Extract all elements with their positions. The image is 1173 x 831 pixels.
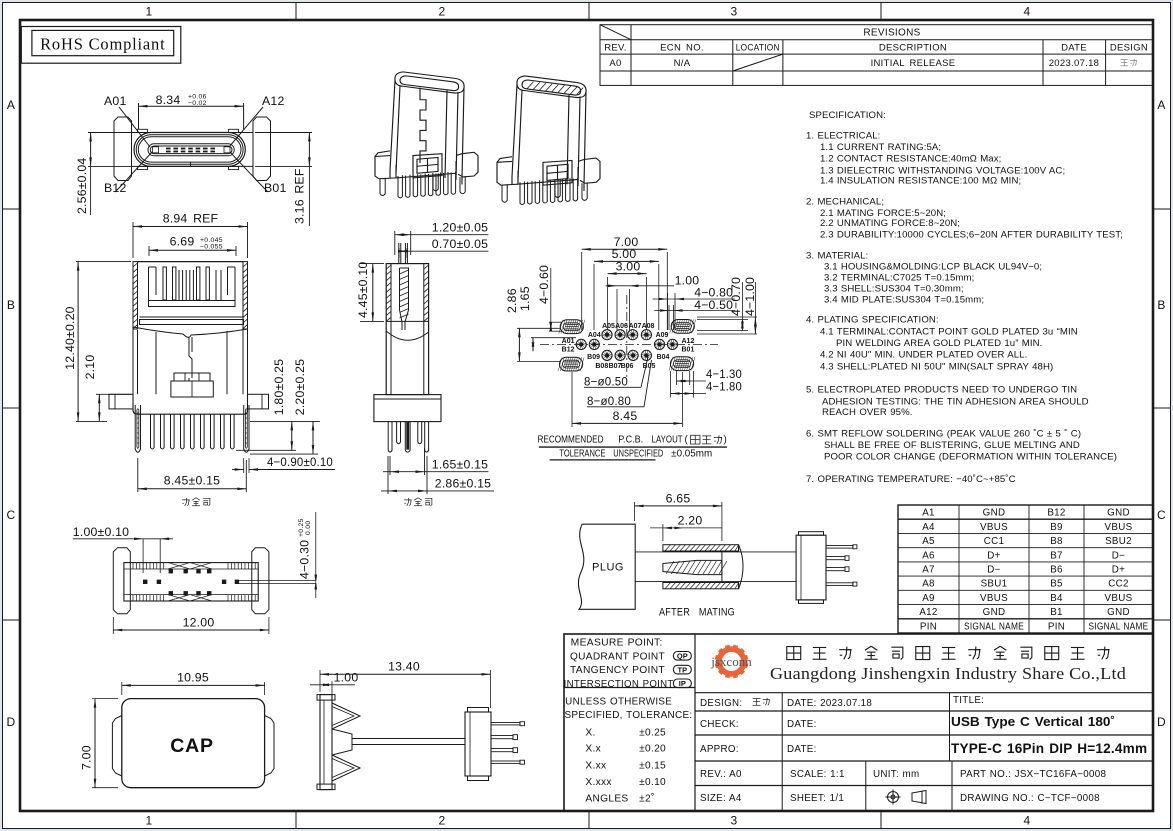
svg-text:−0.02: −0.02 [188, 100, 207, 107]
svg-text:4.45±0.10: 4.45±0.10 [356, 262, 370, 318]
svg-text:DESIGN: DESIGN [1110, 43, 1148, 54]
svg-text:ECN NO.: ECN NO. [660, 43, 704, 54]
recommended pcb layout view [505, 235, 757, 460]
top wing [332, 703, 360, 729]
svg-text:): ) [724, 435, 728, 446]
pins [388, 422, 392, 453]
dim 4-0.50 [668, 305, 670, 330]
svg-text:6. SMT REFLOW SOLDERING (PE: 6. SMT REFLOW SOLDERING (PEAK VALUE 260 … [806, 429, 1081, 440]
svg-text:B09: B09 [587, 354, 600, 361]
svg-text:SCALE: 1:1: SCALE: 1:1 [790, 769, 845, 780]
diagonal in rev corner cell [600, 25, 631, 40]
plug body [578, 524, 635, 609]
svg-text:PIN: PIN [920, 621, 937, 632]
after mating view [578, 492, 856, 619]
dim 4-1.80 [670, 371, 672, 398]
svg-text:7.00: 7.00 [80, 745, 94, 770]
ext lines 4-0.30 [239, 580, 316, 582]
svg-text:3: 3 [731, 5, 738, 19]
base body [133, 394, 248, 414]
svg-text:B06: B06 [621, 363, 634, 370]
svg-text:2.3 DURABILITY:10000 CYCLES;: 2.3 DURABILITY:10000 CYCLES;6~20N AFTER … [820, 229, 1123, 240]
svg-text:AFTER MATING: AFTER MATING [659, 607, 735, 619]
zone ticks right [1153, 208, 1171, 210]
svg-text:1.65±0.15: 1.65±0.15 [432, 458, 488, 472]
svg-text:DRAWING NO.: C−TCF−0008: DRAWING NO.: C−TCF−0008 [960, 793, 1100, 804]
svg-text:2: 2 [439, 814, 446, 828]
right flange [253, 117, 271, 181]
pegs [135, 405, 140, 452]
svg-text:SPECIFIED, TOLERANCE:: SPECIFIED, TOLERANCE: [565, 710, 693, 721]
svg-text:B6: B6 [1050, 565, 1063, 576]
zone ticks left [3, 208, 21, 210]
svg-text:SHALL BE FREE OF BLISTERIN: SHALL BE FREE OF BLISTERING, GLUE MELTIN… [824, 440, 1080, 451]
receptacle walls hatched [663, 545, 739, 551]
svg-text:GND: GND [983, 607, 1006, 618]
svg-text:1. ELECTRICAL:: 1. ELECTRICAL: [806, 131, 880, 142]
dim 4-0.60 left [549, 321, 562, 323]
x cross pattern [168, 563, 212, 569]
comb base bands [149, 301, 236, 307]
svg-text:2.20±0.25: 2.20±0.25 [293, 359, 307, 415]
svg-text:B: B [1157, 298, 1165, 312]
company CJK name [787, 647, 801, 660]
dim 4-1.00 right [697, 316, 757, 318]
svg-text:P.C.B.: P.C.B. [618, 435, 643, 446]
svg-text:DATE:: DATE: [787, 719, 817, 730]
svg-text:1.00±0.10: 1.00±0.10 [73, 525, 129, 539]
dim 3.00 [607, 277, 609, 330]
dim 7.00 [581, 252, 583, 330]
dim 2.86 [387, 456, 389, 494]
svg-text:REV.: REV. [604, 43, 627, 54]
dim 1.65 [389, 456, 391, 475]
dim 12.00 [112, 617, 114, 634]
solder pads [169, 569, 173, 573]
svg-text:8−ø0.80: 8−ø0.80 [587, 394, 631, 408]
svg-text:TANGENCY POINT: TANGENCY POINT [570, 665, 665, 676]
diagonal in location cell [733, 54, 783, 71]
dim 2.56 left [88, 132, 133, 134]
side assembly view [310, 660, 525, 790]
circular pads top row [602, 330, 612, 340]
svg-text:1.65: 1.65 [518, 286, 532, 311]
svg-text:8.45±0.15: 8.45±0.15 [164, 474, 220, 488]
svg-text:±0.10: ±0.10 [639, 777, 666, 788]
svg-text:SIGNAL NAME: SIGNAL NAME [1089, 621, 1149, 632]
svg-text:DATE: DATE [1061, 43, 1087, 54]
svg-text:3. MATERIAL:: 3. MATERIAL: [806, 251, 868, 262]
svg-text:X.xx: X.xx [585, 761, 606, 772]
svg-text:2.56±0.04: 2.56±0.04 [75, 158, 89, 214]
svg-text:A5: A5 [922, 536, 935, 547]
svg-text:DATE: 2023.07.18: DATE: 2023.07.18 [787, 698, 872, 709]
dim 8.34 [138, 103, 140, 129]
svg-text:A09: A09 [656, 332, 669, 339]
contact dashes [166, 148, 171, 150]
svg-text:±2˚: ±2˚ [639, 792, 655, 804]
svg-text:B07: B07 [609, 363, 622, 370]
svg-text:1.4 INSULATION RESISTANCE:10: 1.4 INSULATION RESISTANCE:100 MΩ MIN; [820, 175, 1021, 186]
center stem [189, 337, 192, 381]
dim 8.45 [137, 458, 139, 492]
svg-text:3.1 HOUSING&MOLDING:LCP BLAC: 3.1 HOUSING&MOLDING:LCP BLACK UL94V−0; [824, 262, 1042, 273]
connector pins [826, 546, 853, 549]
dim 4-0.70 right [697, 319, 748, 321]
svg-text:LOCATION: LOCATION [736, 43, 780, 54]
tube outer [386, 264, 428, 395]
cap view [80, 671, 275, 788]
svg-text:B01: B01 [264, 181, 286, 195]
svg-text:2.86: 2.86 [505, 288, 519, 313]
section label CJK [404, 498, 412, 506]
base flange wings [109, 394, 133, 409]
svg-text:SBU2: SBU2 [1105, 536, 1132, 547]
dim 0.70 [398, 248, 400, 258]
svg-text:CC2: CC2 [1108, 579, 1129, 590]
revisions table [600, 25, 1153, 86]
svg-text:(: ( [685, 435, 689, 446]
dim 6.69 [148, 246, 150, 256]
svg-text:GND: GND [1107, 607, 1130, 618]
svg-text:7. OPERATING TEMPERATURE: −4: 7. OPERATING TEMPERATURE: −40˚C~+85˚C [806, 474, 1016, 485]
side section view [356, 221, 494, 506]
break wave [133, 327, 248, 337]
svg-text:B08: B08 [595, 363, 608, 370]
svg-text:RoHS Compliant: RoHS Compliant [40, 35, 165, 54]
svg-text:A9: A9 [922, 593, 935, 604]
svg-text:2.2 UNMATING FORCE:8~20N;: 2.2 UNMATING FORCE:8~20N; [820, 218, 960, 229]
svg-text:1.80±0.25: 1.80±0.25 [272, 359, 286, 415]
left flange [114, 117, 132, 181]
circular pads bottom row [602, 350, 612, 360]
pins right [491, 723, 520, 725]
svg-text:13.40: 13.40 [388, 660, 420, 674]
svg-text:A07: A07 [629, 323, 642, 330]
svg-text:INTERSECTION POINT: INTERSECTION POINT [564, 679, 674, 690]
dim 2.10 [96, 393, 131, 395]
svg-text:CC1: CC1 [984, 536, 1005, 547]
svg-text:X.x: X.x [585, 743, 601, 754]
front section view [63, 212, 335, 506]
svg-text:D+: D+ [1112, 565, 1125, 576]
svg-text:3.2 TERMINAL:C7025 T=0.15mm;: 3.2 TERMINAL:C7025 T=0.15mm; [824, 273, 974, 284]
svg-text:12.00: 12.00 [183, 615, 215, 629]
svg-text:A04: A04 [588, 332, 601, 339]
svg-text:A6: A6 [922, 550, 935, 561]
svg-text:B7: B7 [1050, 550, 1063, 561]
svg-text:IP: IP [679, 679, 686, 688]
dim 13.40 [319, 670, 321, 692]
svg-text:A1: A1 [922, 508, 935, 519]
body lines [132, 132, 254, 134]
dim 1.20 [394, 231, 396, 255]
svg-text:8−ø0.50: 8−ø0.50 [584, 374, 628, 388]
svg-text:VBUS: VBUS [980, 522, 1008, 533]
svg-text:CHECK:: CHECK: [700, 719, 739, 730]
svg-text:A12: A12 [262, 94, 284, 108]
svg-text:INITIAL RELEASE: INITIAL RELEASE [871, 58, 956, 69]
svg-text:2.86±0.15: 2.86±0.15 [435, 477, 491, 491]
svg-text:C: C [1157, 508, 1166, 522]
isometric view right [497, 76, 600, 205]
svg-text:SHEET: 1/1: SHEET: 1/1 [790, 793, 844, 804]
svg-text:PLUG: PLUG [592, 562, 624, 574]
RoHS Compliant box [21, 27, 181, 64]
svg-text:1.1 CURRENT RATING:5A;: 1.1 CURRENT RATING:5A; [820, 142, 941, 153]
svg-text:DESCRIPTION: DESCRIPTION [879, 43, 947, 54]
svg-text:1: 1 [146, 814, 153, 828]
zone ticks top [295, 3, 297, 21]
isometric view left [375, 72, 478, 198]
dim 3.16 REF right [255, 132, 312, 134]
bottom view [73, 512, 317, 634]
svg-text:1.20±0.05: 1.20±0.05 [432, 221, 488, 235]
dim 4.45 [360, 263, 384, 265]
svg-text:A12: A12 [919, 607, 937, 618]
svg-text:A08: A08 [642, 323, 655, 330]
dim 12.40 [76, 261, 131, 263]
svg-text:QP: QP [677, 652, 688, 661]
svg-text:A8: A8 [922, 579, 935, 590]
pin assignment table [898, 505, 1153, 633]
svg-text:3: 3 [731, 814, 738, 828]
svg-text:VBUS: VBUS [1105, 593, 1133, 604]
svg-text:B05: B05 [643, 363, 656, 370]
svg-text:CAP: CAP [170, 735, 214, 757]
svg-text:MEASURE POINT:: MEASURE POINT: [571, 638, 663, 649]
svg-text:B01: B01 [682, 347, 695, 354]
svg-text:4−1.00: 4−1.00 [743, 277, 757, 316]
top view of connector [75, 93, 312, 226]
svg-text:ADHESION TESTING: THE TIN: ADHESION TESTING: THE TIN ADHESION AREA … [822, 396, 1089, 407]
iso right comb legs [520, 181, 524, 204]
svg-text:B5: B5 [1050, 579, 1063, 590]
svg-text:±0.20: ±0.20 [639, 743, 666, 754]
svg-text:SPECIFICATION:: SPECIFICATION: [809, 110, 886, 121]
svg-text:PIN: PIN [1048, 621, 1065, 632]
svg-text:B1: B1 [1050, 607, 1063, 618]
svg-text:POOR COLOR CHANGE (DEFORMAT: POOR COLOR CHANGE (DEFORMATION WITHIN TO… [824, 452, 1117, 463]
svg-text:A: A [7, 98, 15, 112]
right block [465, 712, 491, 776]
svg-text:N/A: N/A [674, 58, 691, 69]
svg-text:C: C [7, 508, 16, 522]
svg-text:0.00: 0.00 [305, 521, 312, 535]
svg-text:SIGNAL NAME: SIGNAL NAME [964, 621, 1024, 632]
section label CJK [182, 498, 190, 506]
svg-text:UNLESS OTHERWISE: UNLESS OTHERWISE [565, 696, 672, 707]
svg-text:SIZE: A4: SIZE: A4 [700, 793, 742, 804]
svg-text:GND: GND [983, 508, 1006, 519]
inner tongue hatched [400, 268, 409, 330]
svg-text:B: B [7, 298, 15, 312]
svg-text:6.65: 6.65 [666, 492, 691, 506]
dim 8.94 REF [132, 222, 134, 258]
svg-text:1.2 CONTACT RESISTANCE:40mΩ: 1.2 CONTACT RESISTANCE:40mΩ Max; [820, 154, 1001, 165]
dim 2.20 right [250, 453, 318, 455]
body outline [124, 563, 258, 601]
tube wave [386, 331, 428, 340]
svg-text:ANGLES: ANGLES [585, 793, 628, 804]
side columns [132, 329, 134, 394]
svg-text:jsxconn: jsxconn [710, 654, 752, 669]
svg-text:D: D [1157, 715, 1166, 729]
svg-text:8.45: 8.45 [613, 409, 638, 423]
right bracket [252, 548, 269, 614]
svg-text:4: 4 [1024, 5, 1031, 19]
svg-text:DESIGN:: DESIGN: [700, 698, 742, 709]
right connector block [796, 535, 826, 600]
svg-text:USB Type C Vertical 180˚: USB Type C Vertical 180˚ [951, 714, 1115, 729]
dim 1.80 right [250, 420, 320, 422]
dim 4-1.30 [676, 371, 678, 385]
svg-text:4.1 TERMINAL:CONTACT POINT: 4.1 TERMINAL:CONTACT POINT GOLD PLATED 3… [820, 327, 1078, 338]
svg-text:VBUS: VBUS [1105, 522, 1133, 533]
svg-text:A05: A05 [602, 323, 615, 330]
dim 4-0.80 [667, 293, 669, 330]
svg-text:PART NO.: JSX−TC16FA−0008: PART NO.: JSX−TC16FA−0008 [960, 769, 1107, 780]
svg-text:±0.05mm: ±0.05mm [671, 448, 712, 459]
svg-text:UNIT: mm: UNIT: mm [873, 769, 919, 780]
svg-text:B12: B12 [1047, 508, 1065, 519]
svg-text:3.16 REF: 3.16 REF [293, 168, 307, 224]
svg-text:10.95: 10.95 [177, 671, 209, 685]
terminal comb [149, 267, 157, 301]
svg-text:A0: A0 [609, 58, 621, 69]
iso left comb legs [398, 175, 402, 198]
dim 6.65 [634, 502, 636, 521]
circular pads mid row [576, 339, 586, 349]
svg-text:8.94 REF: 8.94 REF [163, 212, 219, 226]
dim 8.45 pcb [571, 372, 573, 427]
dim 2.20 [662, 524, 664, 541]
shell stadium rings [134, 133, 245, 167]
svg-text:2023.07.18: 2023.07.18 [1049, 58, 1100, 69]
rod [352, 739, 465, 745]
svg-text:2: 2 [439, 5, 446, 19]
svg-text:1: 1 [146, 5, 153, 19]
dim 10.95 [121, 682, 123, 695]
svg-text:A4: A4 [922, 522, 935, 533]
svg-text:RECOMMENDED: RECOMMENDED [538, 435, 604, 446]
svg-text:TITLE:: TITLE: [953, 695, 984, 706]
svg-text:GND: GND [1107, 508, 1130, 519]
svg-text:B04: B04 [657, 354, 670, 361]
svg-text:3.00: 3.00 [616, 259, 641, 273]
center block [174, 373, 210, 381]
receptacle right cap [739, 545, 743, 589]
svg-text:4−1.80: 4−1.80 [706, 380, 742, 394]
svg-text:±0.15: ±0.15 [639, 761, 666, 772]
svg-text:DATE:: DATE: [787, 744, 817, 755]
svg-text:B8: B8 [1050, 536, 1063, 547]
svg-text:4: 4 [1024, 814, 1031, 828]
svg-text:A01: A01 [562, 338, 575, 345]
svg-text:D−: D− [1112, 550, 1125, 561]
svg-text:4−0.60: 4−0.60 [537, 265, 551, 304]
svg-text:5. ELECTROPLATED PRODUCTS NE: 5. ELECTROPLATED PRODUCTS NEED TO UNDERG… [806, 384, 1077, 395]
svg-text:LAYOUT: LAYOUT [652, 435, 683, 446]
svg-text:TOLERANCE: TOLERANCE [559, 448, 605, 459]
svg-text:2.20: 2.20 [678, 514, 703, 528]
svg-text:0.70±0.05: 0.70±0.05 [432, 237, 488, 251]
cap body [122, 699, 265, 788]
comb teeth [151, 414, 155, 449]
receptacle tongue hatched [663, 560, 722, 574]
svg-text:+0.25: +0.25 [298, 518, 305, 537]
bottom wing [332, 755, 360, 781]
svg-text:A7: A7 [922, 565, 935, 576]
svg-text:D−: D− [987, 565, 1000, 576]
svg-text:4−0.70: 4−0.70 [729, 277, 743, 316]
svg-text:REV.: A0: REV.: A0 [700, 769, 742, 780]
center tongue [332, 729, 352, 755]
svg-text:REACH OVER 95%.: REACH OVER 95%. [822, 407, 912, 418]
svg-text:D: D [7, 715, 16, 729]
center lines [540, 343, 718, 345]
svg-text:A01: A01 [104, 94, 126, 108]
cap ears [112, 716, 121, 777]
svg-text:Guangdong Jinshengxin Industry: Guangdong Jinshengxin Industry Share Co.… [770, 664, 1126, 683]
svg-text:4−0.90±0.10: 4−0.90±0.10 [267, 455, 333, 469]
company logo jsxconn gear [710, 645, 752, 679]
svg-text:1.00: 1.00 [334, 671, 359, 685]
svg-text:B4: B4 [1050, 593, 1063, 604]
svg-text:±0.25: ±0.25 [639, 728, 666, 739]
svg-text:B12: B12 [562, 347, 575, 354]
svg-text:VBUS: VBUS [980, 593, 1008, 604]
svg-text:12.40±0.20: 12.40±0.20 [63, 306, 77, 369]
hatch bottom lines [386, 320, 428, 322]
shell walls hatched [133, 262, 138, 329]
svg-text:−0.055: −0.055 [200, 243, 223, 250]
svg-text:4. PLATING SPECIFICATION:: 4. PLATING SPECIFICATION: [806, 315, 939, 326]
svg-text:2. MECHANICAL;: 2. MECHANICAL; [806, 197, 884, 208]
svg-text:3.3 SHELL:SUS304 T=0.30mm;: 3.3 SHELL:SUS304 T=0.30mm; [824, 284, 964, 295]
svg-text:PIN WELDING AREA GOLD PLAT: PIN WELDING AREA GOLD PLATED 1u” MIN. [836, 338, 1042, 349]
svg-text:4−0.50: 4−0.50 [694, 298, 733, 312]
svg-text:8.34: 8.34 [156, 93, 181, 107]
flange block [374, 395, 441, 422]
mounting plate [320, 695, 332, 790]
designer name CJK [1120, 59, 1136, 66]
dim 2.86 left [517, 327, 560, 329]
svg-text:3.4 MID PLATE:SUS304 T=0.15: 3.4 MID PLATE:SUS304 T=0.15mm; [824, 295, 984, 306]
comb marks top/bottom [132, 563, 134, 569]
svg-text:UNSPECIFIED: UNSPECIFIED [613, 448, 663, 459]
svg-text:TYPE-C 16Pin DIP H=12.4mm: TYPE-C 16Pin DIP H=12.4mm [951, 741, 1147, 756]
terminal wires top [398, 243, 400, 264]
left bracket [113, 548, 130, 614]
svg-text:A: A [1157, 98, 1165, 112]
svg-text:SBU1: SBU1 [981, 579, 1008, 590]
corner oval pads [560, 320, 583, 334]
dim 1.00 [616, 289, 618, 330]
zone ticks bottom [295, 811, 297, 829]
svg-text:APPRO:: APPRO: [700, 744, 739, 755]
svg-text:2.10: 2.10 [83, 355, 97, 380]
tongue slot [148, 144, 234, 156]
svg-text:D+: D+ [987, 550, 1000, 561]
svg-text:6.69: 6.69 [170, 235, 195, 249]
dim 1.00 [331, 681, 333, 700]
svg-text:TP: TP [678, 665, 688, 674]
dim 7.00 cap [92, 698, 118, 700]
dim 5.00 [593, 264, 595, 330]
svg-text:A12: A12 [682, 338, 695, 345]
dim 1.65 left [531, 337, 576, 339]
